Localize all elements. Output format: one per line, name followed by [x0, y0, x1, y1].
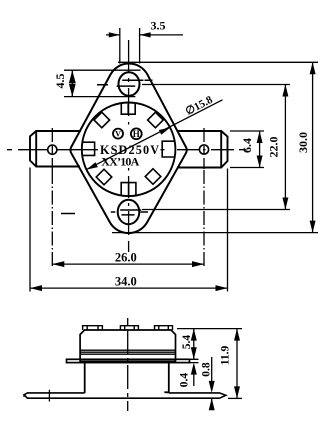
notch S: [121, 183, 136, 196]
side body bump 1: [83, 326, 103, 330]
right terminal: [177, 131, 228, 168]
side view centerline: [127, 318, 129, 411]
diamond SW: [96, 169, 112, 185]
bottom ear hole chords: [61, 210, 148, 215]
diamond NE: [148, 112, 164, 128]
dim 5.4 arrows: [191, 329, 197, 360]
svg-text:30.0: 30.0: [296, 132, 310, 153]
svg-text:26.0: 26.0: [115, 251, 137, 265]
dim 3.5 line: [106, 34, 183, 36]
side terminal bar: [24, 393, 226, 398]
bottom ear hole: [118, 200, 140, 224]
dim 0.4 tail: [193, 375, 195, 386]
dim 5.4 line: [193, 329, 195, 360]
side terminal tick: [48, 390, 50, 402]
dim 30.0 extension lines: [112, 62, 318, 232]
svg-text:0.8: 0.8: [201, 362, 213, 377]
dim 0.4 flange ext: [190, 359, 199, 362]
dim 22.0 extension lines: [142, 85, 290, 210]
dim 5.4 extension line: [177, 328, 242, 330]
left terminal hole: [48, 145, 57, 154]
dim 34.0 extension lines: [30, 168, 228, 292]
left terminal: [30, 131, 81, 167]
dim 26.0 line: [52, 263, 204, 265]
cap circle: [82, 103, 176, 197]
dim 3.5 extension lines: [120, 28, 140, 64]
side view body: [80, 330, 175, 361]
side view flange plate: [67, 359, 190, 362]
notch N: [121, 104, 135, 115]
side view body seams: [80, 350, 175, 354]
svg-text:4.5: 4.5: [53, 74, 67, 89]
dim 6.4 extension lines: [230, 131, 264, 168]
diamond NW: [94, 112, 110, 128]
svg-text:6.4: 6.4: [240, 138, 254, 153]
vertical centerline: [128, 40, 130, 252]
dim 26.0 extension lines: [52, 170, 204, 267]
right terminal hole: [199, 145, 208, 154]
side body bump 3: [155, 326, 173, 330]
leader arrows: [86, 128, 170, 170]
terminal hole centerline left: [51, 128, 53, 170]
dim 6.4 line: [259, 131, 261, 168]
top ear hole: [119, 72, 140, 96]
leader dia 15.8: [86, 100, 222, 170]
svg-text:XX’10A: XX’10A: [101, 155, 139, 169]
svg-text:5.4: 5.4: [181, 335, 193, 350]
diamond SE: [145, 169, 161, 185]
dim 30.0 line: [312, 62, 314, 232]
dim 0.8 arrows: [209, 381, 215, 410]
dim 34.0 arrows: [30, 285, 228, 291]
svg-text:0.4: 0.4: [179, 373, 191, 388]
cert mark H: [131, 128, 142, 139]
dim 22.0 line: [284, 85, 286, 210]
svg-text:3.5: 3.5: [151, 19, 166, 33]
notch E: [162, 141, 175, 157]
svg-text:H: H: [133, 129, 140, 139]
dim 30.0 arrows: [310, 62, 316, 232]
terminal hole centerline right: [203, 128, 205, 169]
side body bump 2: [120, 326, 138, 330]
dim 6.4 arrows: [257, 131, 263, 168]
side view cap: [85, 363, 169, 393]
dim 4.5 extension lines: [64, 70, 141, 96]
dim 4.5 line: [71, 70, 73, 96]
top ear hole chords: [97, 80, 153, 86]
svg-text:34.0: 34.0: [115, 275, 137, 289]
flange outline top view: [70, 64, 186, 234]
dim 11.9 arrows: [234, 329, 240, 399]
cert mark VE: [113, 129, 123, 139]
notch W: [82, 142, 94, 155]
dim 34.0 line: [30, 287, 228, 289]
dim 26.0 arrows: [52, 261, 204, 267]
dim 11.9 line: [236, 329, 238, 399]
dim 0.8 line: [211, 357, 213, 406]
dim 11.9 extension: [228, 397, 242, 399]
dim 3.5 arrows: [109, 32, 151, 37]
svg-text:11.9: 11.9: [220, 346, 232, 366]
dim 4.5 arrows: [69, 70, 76, 96]
svg-text:V: V: [115, 130, 121, 139]
dim 0.4 arrows: [191, 363, 197, 375]
svg-text:22.0: 22.0: [267, 137, 281, 158]
horizontal centerline: [7, 149, 246, 151]
dim 22.0 arrows: [282, 85, 288, 210]
